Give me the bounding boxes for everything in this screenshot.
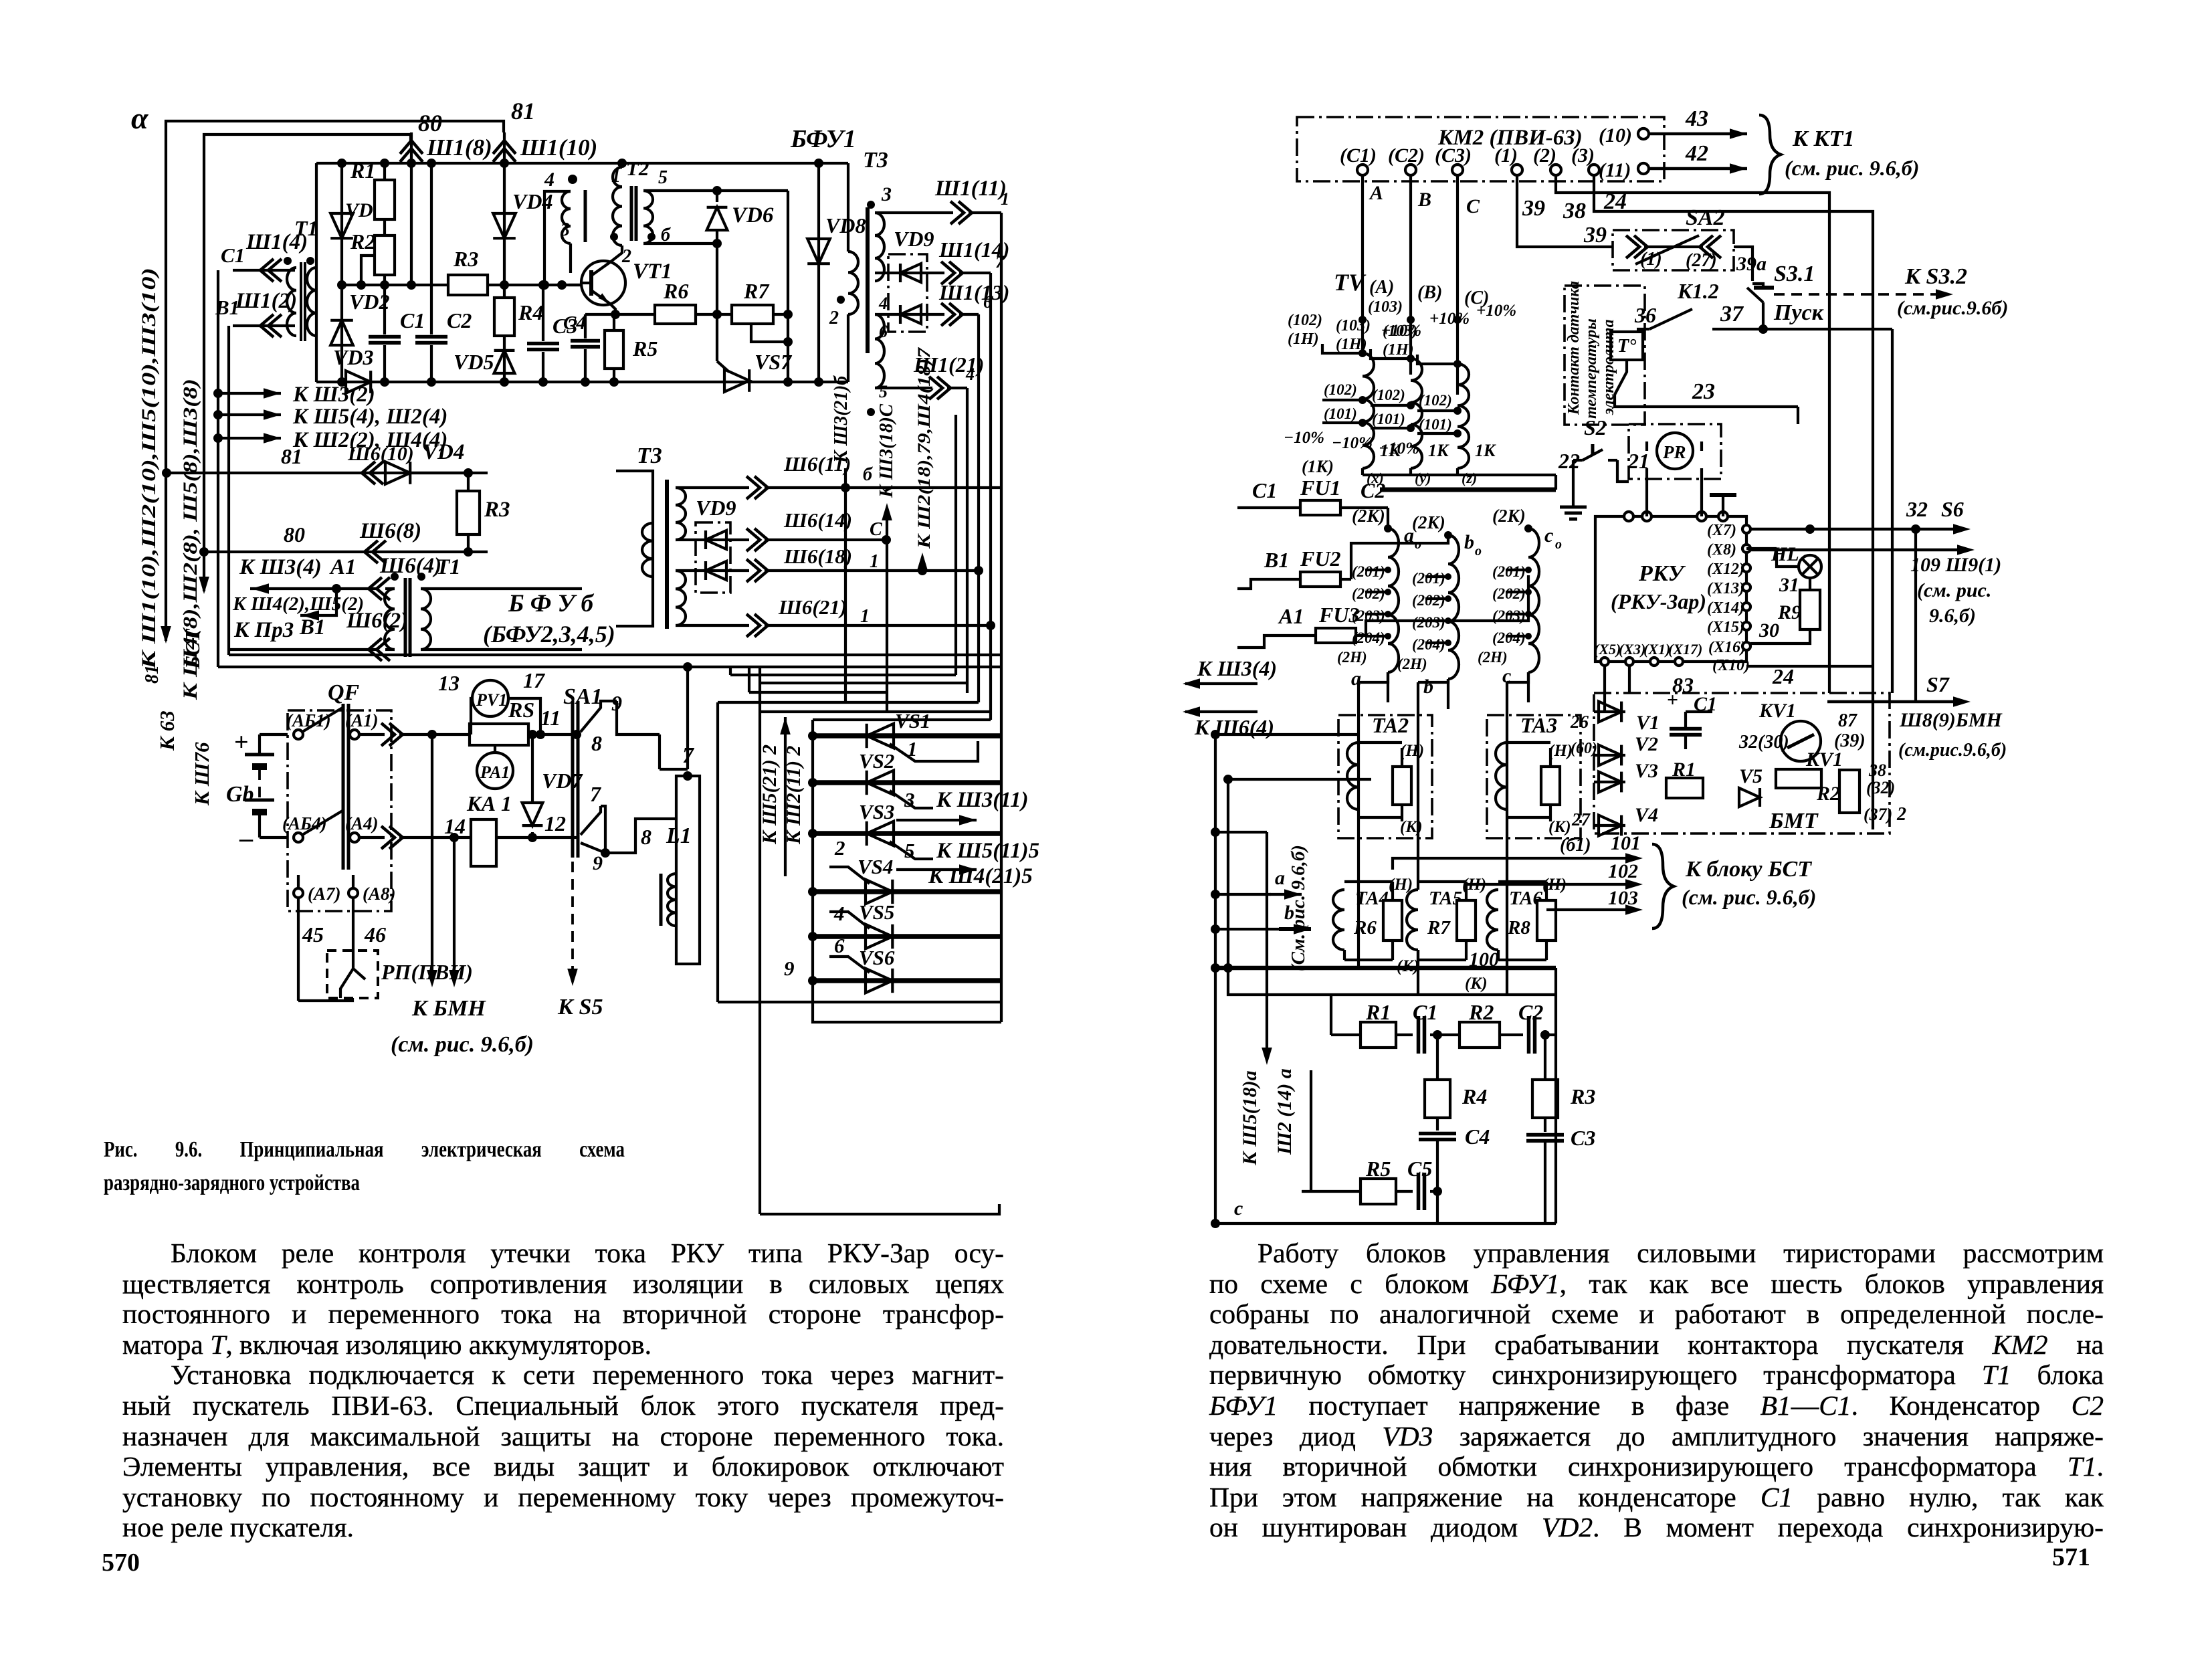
diode VD9a — [875, 272, 944, 274]
svg-text:(2Н): (2Н) — [1478, 649, 1508, 666]
wire bracket to T3 mid — [581, 587, 583, 590]
resistor R4 — [494, 298, 514, 336]
rect VD9 mid dashed — [696, 522, 730, 593]
svg-text:C4: C4 — [1465, 1124, 1490, 1149]
svg-text:К Ш1(10),Ш2(10),Ш5(10),Ш3(10): К Ш1(10),Ш2(10),Ш5(10),Ш3(10) — [138, 268, 160, 670]
wire S6 branch down — [1914, 529, 1917, 702]
svg-text:(102): (102) — [1324, 381, 1357, 398]
diode VD3 on bottom rail — [346, 371, 371, 393]
resistor R6 — [615, 313, 655, 316]
svg-text:R9: R9 — [1777, 601, 1801, 623]
wire frame vertical 1 — [217, 270, 219, 667]
svg-text:(204): (204) — [1412, 636, 1445, 653]
svg-text:(Н): (Н) — [1400, 742, 1424, 760]
wire 39 from terminal 1 — [1517, 175, 1613, 247]
svg-text:К Ш3(4): К Ш3(4) — [1197, 656, 1277, 680]
svg-text:4: 4 — [833, 902, 845, 925]
transformer T3 upper winding lower — [875, 314, 884, 388]
svg-text:(б1): (б1) — [1560, 835, 1591, 856]
arrow up gate feeder — [784, 717, 787, 743]
rect QF dash-dot box — [288, 710, 391, 911]
ground symbol — [1572, 460, 1575, 495]
capacitor C3 — [542, 285, 544, 341]
svg-text:К Ш3(4): К Ш3(4) — [239, 555, 322, 579]
thyristor VS2 — [813, 780, 1001, 785]
svg-text:R6: R6 — [663, 279, 688, 303]
svg-text:1: 1 — [1001, 189, 1009, 209]
svg-text:(см. рис. 9.6,б): (см. рис. 9.6,б) — [1785, 156, 1919, 180]
svg-text:6: 6 — [834, 934, 845, 957]
transformer T2 core — [630, 186, 633, 241]
TV winding (B) taps 102 101 — [1371, 404, 1411, 407]
svg-text:(27): (27) — [1686, 250, 1717, 271]
contactor KM2 terminal (1) — [1512, 165, 1522, 175]
svg-text:(2Н): (2Н) — [1397, 656, 1427, 672]
wire K Sh3(21)b vertical — [844, 468, 847, 488]
wire RKU X3 drop — [1628, 666, 1631, 693]
diode VD9 mid b — [676, 569, 749, 572]
wire FU3 to winding c — [1366, 575, 1528, 635]
svg-text:Ш1(8): Ш1(8) — [426, 134, 492, 161]
transformer T1 sync dots — [284, 257, 292, 265]
left staggered entry lines — [1215, 733, 1359, 736]
wire vertical TA5 primary — [1418, 679, 1448, 682]
svg-text:Ш1(4): Ш1(4) — [245, 230, 308, 254]
svg-text:4: 4 — [878, 294, 888, 313]
arrow K Sh6(4) — [1185, 710, 1258, 713]
contactor KM2 terminal (3) — [1589, 165, 1599, 175]
svg-text:(1К): (1К) — [1302, 457, 1334, 476]
svg-text:13: 13 — [438, 671, 460, 695]
wire Sh6(11) out — [676, 486, 749, 489]
svg-text:(202): (202) — [1492, 585, 1526, 602]
wire base rail right — [488, 284, 591, 286]
rect temperature sensor dash-dot box — [1565, 286, 1645, 425]
svg-text:(X7): (X7) — [1707, 522, 1736, 539]
svg-text:(см. рис. 9.6,б): (см. рис. 9.6,б) — [391, 1032, 534, 1057]
wire frame bottom rail 2 — [229, 654, 1001, 656]
resistor R1 — [383, 163, 386, 180]
contactor KM2 terminal (C3) — [1452, 165, 1463, 175]
resistor R2 — [383, 219, 386, 235]
svg-text:БФУ1: БФУ1 — [790, 125, 856, 153]
wire 9 to L1 top — [617, 701, 660, 734]
rect RP(PVI) dashed — [327, 951, 378, 998]
svg-text:7: 7 — [995, 252, 1005, 272]
staggered feeder line y1064 — [760, 710, 991, 713]
wire L1 to frame rail — [686, 667, 689, 769]
svg-text:(203): (203) — [1492, 607, 1526, 624]
svg-text:БМТ: БМТ — [1769, 809, 1819, 833]
svg-text:(Н): (Н) — [1389, 876, 1413, 894]
diode VD1 — [330, 213, 353, 238]
TV winding (C) tap upper — [1417, 355, 1457, 364]
svg-text:VS3: VS3 — [859, 800, 894, 823]
svg-text:(103): (103) — [1368, 298, 1403, 316]
resistor R1 bmt — [1666, 778, 1703, 798]
svg-text:V5: V5 — [1739, 765, 1763, 787]
svg-text:C: C — [870, 519, 882, 540]
svg-text:80: 80 — [418, 110, 442, 136]
svg-text:(X12): (X12) — [1707, 561, 1744, 578]
RKU top pins — [1624, 512, 1633, 521]
svg-text:3: 3 — [881, 183, 892, 205]
svg-text:R4: R4 — [518, 300, 543, 324]
svg-text:(202): (202) — [1352, 585, 1385, 602]
svg-text:TV: TV — [1334, 269, 1367, 296]
svg-text:(203): (203) — [1412, 614, 1445, 631]
arrow stub K Sh2(2),Sh4(4) — [213, 433, 223, 443]
wire 46 — [352, 898, 355, 958]
svg-text:VS6: VS6 — [859, 946, 895, 969]
rect BMT dash-dot box — [1594, 693, 1890, 833]
wire RS to SA1 — [528, 733, 577, 736]
wire 38 from terminal 2 — [1556, 175, 1829, 693]
transformer TA2 burden resistor — [1393, 767, 1411, 805]
connector chevron A1 out — [381, 723, 403, 746]
svg-text:V3: V3 — [1635, 760, 1658, 782]
wire B1 line — [229, 648, 379, 651]
TV bottom bus — [1363, 474, 1556, 476]
svg-text:К S5: К S5 — [557, 995, 603, 1019]
transformer T1 bfu6 right winding — [421, 589, 431, 650]
wire bus y1487 — [1228, 968, 1556, 995]
dashed wire K S3.2 — [1774, 293, 1940, 296]
wire frame bottom rail 1 — [218, 666, 1001, 668]
svg-text:R1: R1 — [1365, 1000, 1391, 1024]
meter PA1 — [494, 745, 496, 753]
svg-text:23: 23 — [1692, 379, 1715, 404]
contactor KM2 terminal (C1) — [1357, 165, 1368, 175]
wire vs left vertical 1092 — [729, 667, 732, 675]
svg-text:FU1: FU1 — [1300, 476, 1340, 500]
svg-text:26: 26 — [1570, 712, 1589, 732]
svg-text:C3: C3 — [1571, 1126, 1595, 1150]
svg-text:FU2: FU2 — [1300, 547, 1340, 571]
wire R7 wiper — [751, 324, 788, 342]
svg-text:b: b — [1464, 531, 1474, 553]
svg-text:A1: A1 — [1278, 604, 1304, 628]
svg-text:(1Н): (1Н) — [1336, 336, 1367, 353]
TV winding (C) taps 102 101 — [1417, 409, 1457, 412]
svg-text:Ш6(8): Ш6(8) — [359, 519, 421, 543]
svg-text:(A8): (A8) — [363, 884, 396, 904]
svg-text:VD9: VD9 — [894, 227, 934, 251]
svg-text:(101): (101) — [1372, 411, 1405, 427]
diode VD9 mid a — [676, 538, 749, 541]
svg-text:1К: 1К — [1475, 441, 1496, 460]
arrow K Sh2(18) — [921, 561, 924, 571]
wire 24 from terminal 3 — [1594, 175, 1873, 829]
connector chevron 81 drop — [493, 140, 516, 162]
svg-text:T3: T3 — [637, 444, 662, 468]
resistor R7 — [1457, 900, 1476, 941]
wire T1 bfu6 secondary bottom — [421, 648, 582, 651]
svg-text:Б Ф У б: Б Ф У б — [508, 590, 594, 617]
wire C2 heavy bus — [1380, 488, 1556, 492]
svg-text:T3: T3 — [863, 148, 888, 173]
svg-text:38: 38 — [1868, 761, 1886, 780]
svg-text:102: 102 — [1608, 860, 1638, 882]
wire bottom run — [760, 1204, 999, 1214]
svg-text:К Ш4(2),Ш5(2): К Ш4(2),Ш5(2) — [232, 593, 364, 615]
svg-text:(X5): (X5) — [1594, 641, 1621, 658]
svg-text:+10%: +10% — [1429, 310, 1470, 328]
wire winding4 top — [544, 191, 571, 285]
wire jog a to TA2 — [1359, 672, 1388, 682]
svg-text:(C1): (C1) — [1340, 144, 1377, 167]
svg-text:Ш6(14): Ш6(14) — [783, 508, 852, 532]
svg-text:VD5: VD5 — [454, 350, 494, 374]
TV winding (C) coil — [1457, 364, 1469, 468]
svg-text:SA2: SA2 — [1686, 205, 1725, 230]
wire VD column — [340, 163, 343, 382]
svg-text:(X16): (X16) — [1708, 639, 1746, 656]
staggered feeder line y1021 — [760, 682, 967, 684]
svg-text:109 Ш9(1): 109 Ш9(1) — [1910, 554, 2001, 576]
transformer T3 upper core — [866, 207, 870, 353]
block BFU1 right edge with T3 primary — [847, 163, 849, 252]
wire right edge vertical long — [1000, 213, 1003, 1022]
wire Sh1(11) out — [875, 211, 953, 214]
brace K KT1 — [1759, 115, 1781, 194]
resistor R1 rc — [1361, 1022, 1396, 1048]
svg-text:Ш6(11): Ш6(11) — [783, 452, 851, 476]
svg-text:(2К): (2К) — [1412, 512, 1445, 532]
switch QF upper contact (A1) — [350, 730, 359, 739]
svg-text:B1: B1 — [1264, 548, 1289, 572]
svg-text:(см. рис. 9.6,б): (см. рис. 9.6,б) — [1682, 885, 1816, 909]
wire S6 row — [1745, 528, 1748, 530]
transformer T1 sync core — [300, 262, 302, 341]
svg-text:К S3.2: К S3.2 — [1904, 264, 1967, 289]
svg-text:(X14): (X14) — [1707, 599, 1744, 617]
wire vs left vertical 1136 — [759, 667, 761, 1214]
svg-text:Ш1(2): Ш1(2) — [235, 289, 297, 313]
wire vertical 2149 bottom — [1436, 1191, 1439, 1223]
wire RC row main — [1331, 1033, 1361, 1036]
meter PV1 — [472, 680, 508, 716]
resistor R2 bmt — [1839, 770, 1859, 813]
winding 2K b bottom wire — [1447, 679, 1449, 709]
svg-text:КА 1: КА 1 — [466, 791, 512, 815]
svg-text:(2К): (2К) — [1492, 506, 1526, 526]
thyristor VS5 — [813, 934, 1001, 939]
svg-text:(См. рис. 9.6,б): (См. рис. 9.6,б) — [1288, 845, 1309, 971]
thyristor VS6 — [813, 978, 1001, 983]
resistor R3 — [1544, 1035, 1546, 1080]
svg-text:B1: B1 — [299, 615, 326, 639]
svg-text:C2: C2 — [1361, 478, 1385, 502]
diode VD9b — [875, 313, 944, 316]
svg-text:(X3): (X3) — [1619, 641, 1645, 658]
contactor KM2 terminal (C2) — [1405, 165, 1416, 175]
wire S2 to RKU — [1617, 460, 1629, 482]
svg-text:KV1: KV1 — [1805, 749, 1843, 771]
wire Sh6(21) out — [676, 624, 749, 627]
svg-text:VD9: VD9 — [696, 496, 736, 520]
arrowhead feeder 80 bottom — [199, 577, 209, 594]
svg-text:(A4): (A4) — [345, 813, 379, 833]
TV winding (C) bottom — [1456, 468, 1459, 475]
svg-text:(2К): (2К) — [1352, 506, 1385, 526]
contactor KM2 terminal (2) — [1550, 165, 1561, 175]
svg-text:R3: R3 — [1570, 1084, 1595, 1108]
svg-text:(см.рис.9.6б): (см.рис.9.6б) — [1897, 297, 2008, 319]
svg-text:(10): (10) — [1599, 124, 1632, 146]
arrowhead feeder 81 bottom — [161, 626, 171, 644]
transformer TA2 dash box — [1338, 715, 1432, 838]
svg-text:V4: V4 — [1635, 804, 1658, 826]
svg-text:24: 24 — [1772, 664, 1794, 688]
svg-text:39: 39 — [1583, 223, 1607, 248]
svg-text:C2: C2 — [447, 308, 472, 332]
left page paragraphs — [122, 1238, 1004, 1269]
connector chevron Sh6(4) — [369, 577, 390, 600]
svg-text:32: 32 — [1906, 497, 1928, 521]
svg-text:(см. рис.: (см. рис. — [1917, 579, 1991, 601]
svg-text:К блоку БСТ: К блоку БСТ — [1685, 857, 1812, 882]
contactor KM2 (PVI-63) dash-dot box — [1297, 117, 1664, 181]
arrow K Sh3(4) — [1185, 682, 1258, 685]
svg-text:PV1: PV1 — [476, 690, 507, 710]
capacitor C2 rc — [1500, 1033, 1523, 1036]
svg-text:(102): (102) — [1372, 387, 1405, 403]
wire T2 top loop — [643, 189, 788, 192]
svg-text:32(30): 32(30) — [1738, 732, 1789, 753]
wire 43 to KT1 — [1649, 132, 1747, 136]
transistor VT1 — [581, 261, 625, 305]
switch QF upper contact (AB1) — [294, 730, 303, 739]
wire phase A drop — [1361, 175, 1364, 355]
svg-text:17: 17 — [523, 668, 546, 692]
wire PV1 right — [508, 698, 540, 734]
resistor R5 — [1302, 1190, 1361, 1193]
svg-text:S3.1: S3.1 — [1774, 262, 1815, 286]
svg-text:(Н): (Н) — [1548, 742, 1573, 760]
arrow K Sh3(18)C — [886, 510, 888, 540]
svg-text:T2: T2 — [626, 157, 649, 180]
wire thick bus y1447 — [1215, 966, 1556, 971]
switch SA1 bottom throw 9 — [581, 843, 605, 853]
svg-text:К Ш5(4), Ш2(4): К Ш5(4), Ш2(4) — [292, 405, 447, 429]
arrow stub K Sh3(2) — [213, 389, 223, 398]
contactor KM2 terminal (11) — [1638, 163, 1649, 174]
capacitor C3 — [1544, 1118, 1546, 1132]
svg-text:SA1: SA1 — [563, 684, 603, 709]
TV winding (B) tap upper — [1371, 349, 1411, 359]
svg-text:2: 2 — [1896, 804, 1906, 825]
svg-text:1: 1 — [611, 166, 621, 187]
arrow K Sh4(2),Sh5(2) — [300, 589, 336, 615]
svg-text:TA2: TA2 — [1372, 713, 1409, 737]
resistor R8 — [1537, 900, 1556, 941]
svg-text:c: c — [1544, 524, 1553, 547]
svg-text:45: 45 — [302, 922, 324, 947]
rect L1 frame — [676, 776, 700, 964]
wire Sh9 row — [1750, 549, 1965, 552]
svg-text:C5: C5 — [1407, 1157, 1432, 1181]
TV winding (B) coil — [1411, 359, 1422, 468]
svg-text:К Пр3: К Пр3 — [233, 618, 294, 642]
svg-text:C1: C1 — [400, 308, 425, 332]
svg-text:4: 4 — [544, 169, 555, 191]
TV winding (A) coil — [1363, 353, 1374, 468]
svg-text:(X10): (X10) — [1712, 657, 1750, 674]
svg-text:9.6,б): 9.6,б) — [1929, 605, 1976, 627]
svg-text:R1: R1 — [1672, 759, 1696, 781]
svg-text:(32): (32) — [1866, 778, 1895, 797]
diode V3 — [1594, 781, 1625, 783]
svg-text:Ш1(10): Ш1(10) — [520, 134, 597, 161]
wire A1 to shunt — [399, 733, 470, 736]
svg-text:42: 42 — [1685, 141, 1708, 166]
block RKU box — [1595, 516, 1746, 662]
svg-text:R5: R5 — [632, 336, 658, 361]
wire frame vertical 2 — [227, 326, 230, 655]
svg-text:(2Н): (2Н) — [1337, 649, 1367, 666]
svg-text:C: C — [1466, 195, 1480, 217]
svg-text:(К): (К) — [1548, 818, 1571, 836]
svg-text:Ш8(9)БМН: Ш8(9)БМН — [1899, 709, 2003, 731]
svg-text:24: 24 — [1603, 189, 1627, 214]
transformer T3 mid core — [665, 480, 669, 629]
svg-text:VS1: VS1 — [895, 709, 930, 732]
svg-text:PR: PR — [1662, 442, 1686, 462]
wire below bank 2 — [813, 981, 1001, 1022]
diode VD4 bfu1 — [493, 213, 516, 238]
switch SA1 bars — [571, 701, 575, 858]
svg-text:R4: R4 — [1462, 1084, 1487, 1108]
connector chevron Sh6(2) — [369, 638, 390, 661]
transformer TA2 winding — [1347, 743, 1359, 809]
rect VD9 dashed upper — [888, 254, 927, 332]
wire VT1 base — [569, 284, 582, 286]
svg-text:РКУ: РКУ — [1638, 561, 1686, 586]
svg-text:VS7: VS7 — [755, 350, 793, 374]
svg-text:2: 2 — [829, 308, 839, 328]
svg-text:Ш1(13): Ш1(13) — [938, 280, 1009, 304]
svg-text:3: 3 — [904, 788, 915, 811]
svg-text:1К: 1К — [1428, 441, 1449, 460]
wire RC left drop — [1330, 995, 1332, 1035]
wire 81 drop column — [503, 132, 506, 382]
wire VT1 emitter — [610, 304, 615, 314]
svg-text:К Ш5(18)а: К Ш5(18)а — [1239, 1070, 1261, 1166]
svg-text:Ш6(18): Ш6(18) — [783, 545, 852, 568]
wire vertical TA2 primary — [1357, 682, 1360, 968]
svg-text:KV1: KV1 — [1758, 700, 1796, 722]
thyristor VS3 — [813, 831, 1001, 836]
svg-text:R1: R1 — [350, 159, 375, 183]
wire 7 row to L1 — [601, 806, 605, 853]
capacitor C1 rc — [1396, 1033, 1413, 1036]
connector chevron Sh6(8) — [365, 540, 386, 563]
wire VT1 collector to T2 — [610, 245, 622, 262]
wire 37 row — [1712, 328, 1892, 330]
wire C1 primary — [233, 269, 295, 272]
winding 2K a bottom wire — [1387, 672, 1389, 702]
thyristor VS4 — [813, 889, 1001, 894]
svg-text:5: 5 — [879, 382, 888, 401]
svg-text:R2: R2 — [350, 229, 375, 254]
svg-text:К1.2: К1.2 — [1677, 279, 1719, 303]
wire 101 arrow — [1393, 858, 1632, 870]
svg-text:−10%: −10% — [1379, 439, 1419, 458]
switch SA1 top throw — [581, 701, 617, 732]
wire vs anode bus 1215 — [811, 720, 814, 981]
transformer T1 bfu6 core — [404, 578, 407, 657]
